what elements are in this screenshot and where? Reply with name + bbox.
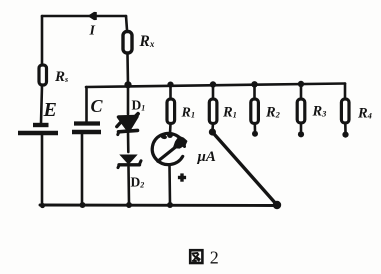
- wire R3 top lead: [300, 84, 303, 99]
- wire C branch upper: [85, 87, 88, 121]
- svg-text:I: I: [89, 24, 96, 39]
- node D / bottom bus: [126, 202, 132, 208]
- svg-text:E: E: [43, 99, 57, 121]
- diode D2 (zener): [118, 155, 141, 167]
- wire R1a to meter: [169, 124, 172, 135]
- current arrow I on top bus: [88, 12, 96, 19]
- wire left branch upper: [41, 16, 44, 64]
- wire mid bus: [86, 84, 345, 88]
- wire switch diagonal: [212, 132, 277, 205]
- resistor R4: [341, 99, 349, 123]
- resistor R1b: [209, 99, 217, 124]
- node switch blade top: [209, 128, 216, 135]
- wire R4 top lead (bus corner): [344, 84, 347, 100]
- node meter top: [167, 132, 173, 138]
- wire R3 bottom lead: [300, 123, 303, 131]
- wire R2 bottom lead: [254, 124, 257, 132]
- wire Rx top lead: [126, 16, 127, 30]
- resistor R2: [251, 99, 259, 124]
- wire R4 bottom lead: [344, 123, 347, 132]
- node R2 open terminal: [252, 131, 258, 137]
- wire top bus: [42, 15, 126, 18]
- node R2 / mid bus: [251, 81, 257, 87]
- wire D branch lower: [127, 167, 130, 204]
- resistor R1a: [167, 99, 175, 124]
- meter plus sign: [178, 173, 186, 181]
- node switch pivot / bottom bus: [273, 201, 281, 209]
- wire Rx bottom lead: [126, 55, 129, 85]
- svg-text:2: 2: [210, 248, 219, 268]
- wire left branch mid (below Rs to battery): [41, 86, 42, 123]
- capacitor C plate bottom: [72, 130, 101, 135]
- wire bottom bus: [40, 204, 277, 207]
- wire left branch lower (battery to bottom bus): [41, 135, 44, 204]
- resistor Rx: [123, 32, 132, 54]
- node R4 open terminal: [342, 132, 348, 138]
- node battery / bottom bus corner: [40, 203, 45, 208]
- node R3 open terminal: [298, 131, 304, 137]
- wire D branch upper: [127, 85, 130, 114]
- node R1b / mid bus: [210, 81, 216, 87]
- node R3 / mid bus: [298, 81, 304, 87]
- wire D1-D2 link: [127, 132, 130, 152]
- battery E plate short: [33, 123, 49, 127]
- wire C branch lower: [81, 134, 84, 204]
- resistor Rs: [39, 65, 47, 85]
- wire meter to bottom bus: [168, 166, 171, 205]
- resistor R3: [297, 99, 305, 123]
- capacitor C plate top: [74, 121, 100, 125]
- node R1a / mid bus: [167, 82, 173, 88]
- svg-text:C: C: [91, 96, 104, 116]
- wire R1b bottom lead: [211, 124, 214, 131]
- node meter / bottom bus: [167, 202, 173, 208]
- node junction Rx/mid-bus: [124, 81, 131, 88]
- wire R1a top lead: [169, 85, 172, 99]
- battery E plate long: [18, 131, 58, 135]
- wire R1b top lead: [212, 85, 215, 99]
- node C / bottom bus: [80, 202, 86, 208]
- meter pointer arrowhead: [174, 137, 187, 148]
- svg-text:μA: μA: [197, 149, 216, 165]
- wire R2 top lead: [253, 85, 256, 99]
- meter uA (galvanometer): [152, 133, 184, 164]
- diode D1 (zener): [117, 114, 138, 135]
- caption: hanzi "tu" (figure) drawn glyph: [190, 250, 202, 263]
